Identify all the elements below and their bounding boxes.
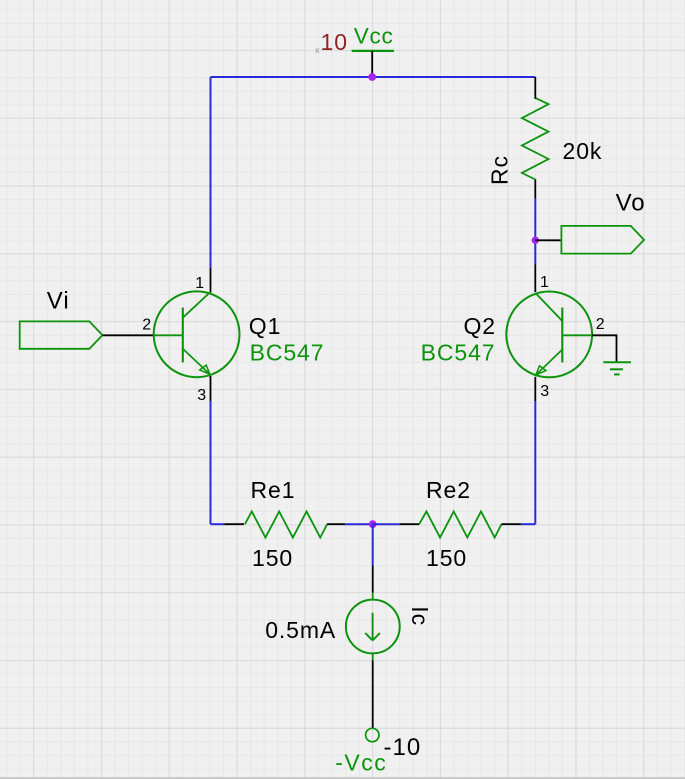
- wire bottom mid blue left: [345, 523, 373, 525]
- resistor Re2: [419, 511, 501, 537]
- transistor Q1 collector diagonal: [183, 292, 210, 317]
- svg-text:Ic: Ic: [407, 606, 433, 626]
- current source arrow shaft: [372, 613, 374, 641]
- input flag Vi: [20, 321, 103, 348]
- ground bar 2: [610, 368, 623, 370]
- wire right rail lower: [534, 401, 536, 524]
- node bottom junction: [369, 520, 377, 528]
- resistor Re1: [245, 511, 327, 537]
- svg-text:20k: 20k: [563, 138, 603, 164]
- svg-text:150: 150: [252, 545, 293, 571]
- wire left rail upper: [210, 77, 212, 268]
- wire Re2 left lead: [373, 523, 400, 525]
- wire Re2 left lead black: [400, 523, 420, 525]
- wire Re1 right lead: [327, 523, 345, 525]
- wire Q2 collector lead: [534, 265, 536, 293]
- svg-text:1: 1: [540, 274, 549, 291]
- wire bottom right blue: [521, 523, 535, 525]
- svg-text:2: 2: [142, 316, 151, 333]
- wire Rc bottom lead: [534, 179, 536, 199]
- wire source to terminal: [372, 661, 374, 729]
- transistor Q2 base line: [562, 334, 592, 336]
- svg-text:-Vcc: -Vcc: [335, 750, 387, 776]
- svg-text:3: 3: [540, 383, 549, 400]
- svg-text:Re2: Re2: [426, 477, 471, 503]
- transistor Q1 base bar: [182, 308, 184, 363]
- wire left rail lower: [210, 401, 212, 524]
- svg-text:BC547: BC547: [250, 340, 325, 366]
- wire Vcc stem: [371, 51, 373, 77]
- svg-text:Q1: Q1: [249, 313, 281, 339]
- wire Re1 left lead: [224, 523, 244, 525]
- ground bar 1: [603, 361, 631, 363]
- output flag Vo: [561, 226, 644, 254]
- svg-text:BC547: BC547: [421, 340, 496, 366]
- node Vcc junction: [368, 73, 376, 81]
- transistor Q2 base bar: [561, 308, 563, 363]
- svg-text:-10: -10: [384, 734, 422, 761]
- svg-text:Rc: Rc: [487, 155, 513, 185]
- wire Vo lead: [535, 239, 561, 241]
- svg-text:Re1: Re1: [251, 477, 296, 503]
- current source arrowhead: [365, 633, 380, 640]
- terminal -Vcc circle: [366, 728, 379, 741]
- resistor Rc: [522, 98, 549, 180]
- wire top rail: [211, 76, 536, 78]
- transistor Q1 emitter diagonal: [183, 349, 209, 374]
- wire Q2 base to ground: [592, 335, 616, 362]
- svg-text:0.5mA: 0.5mA: [265, 617, 336, 643]
- wire Re2 right lead: [502, 523, 521, 525]
- svg-text:x: x: [315, 45, 320, 55]
- wire Q1 collector lead: [210, 268, 212, 293]
- transistor Q2 emitter diagonal: [536, 350, 562, 375]
- current source top stub: [372, 593, 374, 601]
- transistor Q2 emitter arrowhead: [536, 366, 546, 375]
- svg-text:1: 1: [195, 275, 204, 292]
- svg-text:Q2: Q2: [464, 313, 496, 339]
- svg-text:3: 3: [197, 387, 206, 404]
- svg-text:10: 10: [321, 29, 348, 55]
- current source Ic circle: [346, 600, 400, 654]
- wire Q2 emitter lead: [534, 377, 536, 401]
- wire junction to current source: [372, 524, 374, 565]
- wire right rail mid blue: [534, 199, 536, 265]
- transistor Q2 body circle: [506, 292, 592, 378]
- wire Vi to Q1 base: [103, 334, 154, 336]
- transistor Q1 base line: [154, 334, 183, 336]
- wire current source to -Vcc terminal: [372, 653, 374, 661]
- svg-text:2: 2: [596, 316, 605, 333]
- svg-text:Vo: Vo: [616, 190, 646, 217]
- svg-text:Vi: Vi: [47, 287, 70, 314]
- wire Rc top lead: [534, 77, 536, 99]
- wire Q1 emitter lead: [210, 376, 212, 401]
- wire junction to source black part: [372, 566, 374, 593]
- power Vcc bar: [352, 50, 394, 52]
- svg-text:150: 150: [426, 545, 467, 571]
- transistor Q2 collector diagonal: [536, 294, 562, 321]
- ground bar 3: [614, 373, 620, 375]
- transistor Q1 emitter arrowhead: [200, 365, 210, 374]
- transistor Q1 body circle: [154, 291, 240, 377]
- svg-text:Vcc: Vcc: [354, 24, 394, 49]
- wire bottom left blue: [211, 523, 225, 525]
- node Vo junction: [532, 237, 539, 244]
